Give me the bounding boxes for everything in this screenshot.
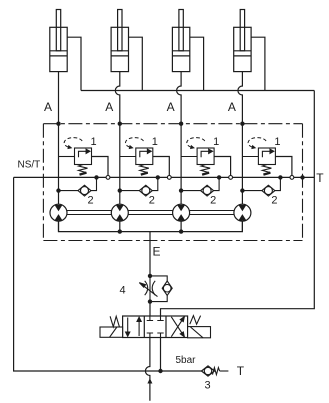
svg-text:3: 3 [205, 380, 211, 392]
pilot line (dashed) of relief valve 2 [125, 138, 143, 148]
cylinder CYL4 [234, 10, 251, 72]
directional valve right position crossed arrows [171, 317, 184, 337]
junction: check valve branch on T bus (unit 4) [278, 175, 282, 179]
solenoid (right) [188, 327, 211, 338]
wire: A4 line inside manifold [241, 124, 243, 205]
junction: A3 port on enclosure top [179, 122, 183, 126]
relief valve 4 (pilot operated) [242, 148, 275, 175]
wire: E line down to restrictor [149, 232, 151, 276]
check valve 3 (back-pressure, spring loaded) [202, 366, 229, 376]
gear motor M4 (flow divider section) [234, 204, 251, 221]
manifold enclosure (chain-line box) [43, 123, 302, 125]
svg-text:A: A [44, 100, 52, 114]
pilot line (dashed) of relief valve 4 [248, 138, 266, 148]
junction: check valve branch on T bus (unit 1) [94, 175, 98, 179]
wire: A2 line inside manifold [119, 124, 121, 205]
wire: valve port P supply with hop over tank line [145, 338, 150, 401]
wire: motor outlet bus E [59, 221, 243, 231]
junction: A1 port on enclosure top [56, 122, 60, 126]
wire: relief valve 1 outlet to T bus [92, 157, 109, 178]
shaft coupling between motors M1-M2 [67, 211, 111, 215]
directional valve 4/3 body [123, 316, 188, 338]
directional valve left position arrows [126, 317, 142, 336]
svg-text:NS/T: NS/T [18, 160, 41, 171]
pilot line (dashed) of relief valve 3 [187, 138, 205, 148]
check valve bypass of restrictor [150, 276, 172, 302]
junction: restrictor bottom [148, 299, 152, 303]
wire: relief valve 3 outlet to T bus [214, 157, 231, 178]
svg-text:2: 2 [149, 195, 155, 207]
svg-text:1: 1 [91, 136, 97, 148]
svg-text:T: T [316, 171, 324, 185]
cylinder CYL1 [50, 10, 67, 72]
junction: check valve branch on A4 line [240, 188, 244, 192]
svg-text:1: 1 [213, 136, 219, 148]
relief valve 1 (pilot operated) [59, 148, 92, 175]
solenoid (left) [100, 327, 123, 337]
junction: check valve branch on T bus (unit 3) [217, 175, 221, 179]
svg-text:A: A [105, 100, 113, 114]
junction: open circle port on T bus (unit 3) [229, 176, 233, 180]
gear motor M1 (flow divider section) [50, 204, 67, 221]
svg-text:2: 2 [210, 195, 216, 207]
junction: A4 port on enclosure top [240, 122, 244, 126]
gear motor M3 (flow divider section) [173, 204, 190, 221]
junction: check valve branch on T bus (unit 2) [156, 175, 160, 179]
check valve 2 (unit 3) [181, 177, 219, 196]
svg-text:A: A [167, 100, 175, 114]
svg-text:1: 1 [152, 136, 158, 148]
junction: check valve branch on A1 line [56, 188, 60, 192]
junction: motor M3 on E bus [179, 229, 183, 233]
wire: CYL3 rod-side port to T bus [190, 37, 204, 90]
wire: A1 line inside manifold [58, 124, 60, 205]
wire: CYL3 bottom port (A line) down to manifold [177, 72, 182, 124]
spring (right end) [190, 316, 201, 325]
wire: right vertical T bus down to valve B line [161, 91, 315, 317]
wire: A3 line inside manifold [180, 124, 182, 205]
wire: valve port T down to tank line [160, 338, 162, 372]
shaft coupling between motors M2-M3 [128, 211, 172, 215]
svg-text:A: A [228, 100, 236, 114]
svg-text:4: 4 [120, 285, 126, 297]
flow direction arrow on P supply [147, 378, 152, 383]
svg-text:T: T [237, 364, 245, 378]
wire: relief valve 2 outlet to T bus [153, 157, 170, 178]
check valve 2 (unit 2) [120, 177, 158, 196]
svg-text:2: 2 [88, 195, 94, 207]
junction: motor M2 on E bus [118, 229, 122, 233]
wire: CYL4 bottom port (A line) down to manifold [238, 72, 243, 124]
wire: CYL2 bottom port (A line) down to manifold [115, 72, 120, 124]
gear motor M2 (flow divider section) [111, 204, 128, 221]
junction: check valve branch on A2 line [118, 188, 122, 192]
check valve 2 (unit 4) [242, 177, 280, 196]
wire: tank return from NS/T line to check valve 3 [14, 177, 202, 371]
wire: rod-side T bus across top [81, 90, 314, 92]
wire: NS/T tank line across manifold [14, 176, 315, 178]
junction: T port joins tank line [158, 369, 162, 373]
junction: restrictor top [148, 274, 152, 278]
junction: open circle port on T bus (unit 4) [290, 176, 294, 180]
wire: CYL1 bottom port (A line) down to manifold [58, 72, 60, 124]
pilot line (dashed) of relief valve 1 [64, 138, 82, 148]
shaft coupling between motors M3-M4 [190, 211, 234, 215]
wire: restrictor to valve port A [149, 302, 151, 316]
cylinder CYL3 [172, 10, 189, 72]
wire: relief valve 4 outlet to T bus [275, 157, 292, 178]
junction: open circle port on T bus (unit 1) [106, 176, 110, 180]
wire: CYL1 rod-side port to T bus [67, 37, 81, 90]
junction: T bus exits enclosure right edge [300, 175, 304, 179]
junction: A2 port on enclosure top [118, 122, 122, 126]
junction: check valve branch on A3 line [179, 188, 183, 192]
cylinder CYL2 [111, 10, 128, 72]
wire: CYL2 rod-side port to T bus [129, 37, 143, 90]
wire: CYL4 rod-side port to T bus [251, 37, 265, 90]
svg-text:1: 1 [274, 136, 280, 148]
svg-text:E: E [153, 245, 161, 259]
throttle valve 4 (adjustable restrictor) [139, 276, 157, 302]
directional valve centre position (blocked ports) [147, 316, 164, 338]
junction: open circle port on T bus (unit 2) [167, 176, 171, 180]
check valve 2 (unit 1) [59, 177, 97, 196]
svg-text:5bar: 5bar [176, 355, 197, 366]
svg-text:2: 2 [271, 195, 277, 207]
relief valve 3 (pilot operated) [181, 148, 214, 175]
spring (left end) [110, 316, 119, 327]
relief valve 2 (pilot operated) [120, 148, 153, 175]
